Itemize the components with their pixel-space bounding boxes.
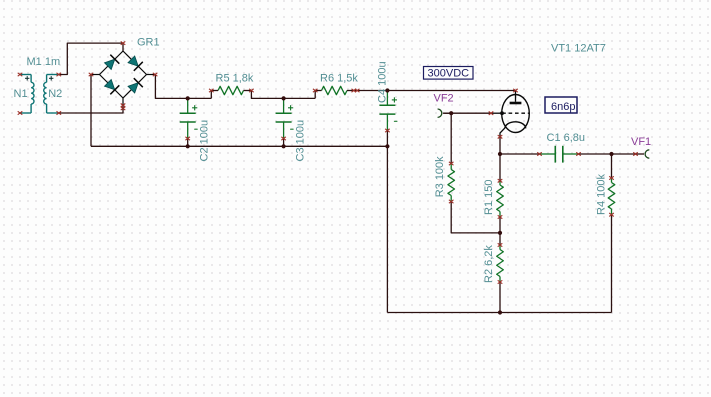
wire bridge left vertex down — [90, 75, 92, 147]
pin R5 left — [209, 89, 214, 92]
wire R1 bottom lead — [499, 217, 501, 233]
pin GR1 right — [153, 73, 158, 76]
capacitor C3 — [283, 98, 285, 113]
svg-text:VT1 12AT7: VT1 12AT7 — [551, 42, 606, 54]
pin R4 top — [609, 176, 614, 179]
pin VF1 — [633, 152, 638, 155]
junction C1 R4 VF1 — [609, 152, 613, 156]
svg-text:R1 150: R1 150 — [483, 180, 495, 215]
junction C3 top — [282, 96, 286, 100]
pin C2 bottom — [185, 137, 190, 140]
svg-text:C4 100u: C4 100u — [377, 61, 389, 103]
svg-text:N2: N2 — [48, 88, 62, 100]
wire R2 bottom lead — [499, 282, 501, 313]
diode GR1 top-left — [105, 59, 115, 69]
wire R3 top lead — [450, 113, 452, 163]
pin VT1 cathode — [498, 135, 503, 138]
wire R1 top lead — [499, 154, 501, 181]
pin R4 bottom — [609, 213, 614, 216]
junction R3 R1 R2 — [498, 231, 502, 235]
resistor R6 — [322, 86, 348, 94]
svg-text:GR1: GR1 — [137, 37, 160, 49]
pin R5 right — [249, 89, 254, 92]
capacitor C1 — [540, 153, 556, 155]
polarity mark N2 — [49, 77, 53, 79]
svg-text:N1: N1 — [14, 88, 28, 100]
junction R2 bottom bus — [498, 310, 502, 314]
wire bridge right vertex to bus — [155, 75, 211, 99]
resistor R4 — [608, 183, 615, 210]
pin R3 bottom — [449, 200, 454, 203]
wire R2 top lead — [499, 233, 501, 245]
wire cathode down — [499, 137, 501, 154]
wire DC minus rail — [91, 145, 387, 147]
label 300VDC box — [424, 67, 474, 80]
capacitor C4 — [386, 91, 388, 106]
svg-text:R2 6,2k: R2 6,2k — [483, 245, 495, 283]
svg-text:VF2: VF2 — [434, 93, 454, 105]
junction C4 rail — [385, 144, 389, 148]
pin R1 top — [498, 179, 503, 182]
wire N2 bottom to bridge bottom — [59, 106, 123, 114]
svg-text:R6 1,5k: R6 1,5k — [320, 73, 358, 85]
diode GR1 top-right — [128, 56, 138, 66]
pin R6 right — [352, 89, 357, 92]
wire C3 to rail — [283, 139, 285, 147]
pin N2 bottom — [57, 111, 62, 114]
wire cathode row to C1 — [500, 153, 540, 155]
svg-text:C1 6,8u: C1 6,8u — [547, 132, 586, 144]
triode VT1 envelope and electrodes — [502, 95, 530, 133]
connector VF1 — [645, 150, 649, 158]
pin C1 right — [576, 152, 581, 155]
pin R6 left — [313, 89, 318, 92]
wire R3 bottom to R1 bottom — [451, 202, 500, 233]
wire N2 top to bridge top — [59, 43, 123, 74]
junction VF2 grid R3 — [449, 111, 453, 115]
connector VF2 — [438, 109, 442, 117]
junction cathode — [498, 152, 502, 156]
svg-text:300VDC: 300VDC — [428, 68, 470, 80]
pin R2 top — [498, 243, 503, 246]
svg-text:M1 1m: M1 1m — [27, 56, 61, 68]
pin C3 bottom — [281, 137, 286, 140]
pin C4 bottom — [385, 129, 390, 132]
wire R6 left stub — [314, 91, 316, 99]
diode GR1 bottom-left — [105, 80, 115, 90]
wire R4 top lead — [611, 154, 613, 178]
resistor R2 — [497, 250, 504, 277]
pin VT1 grid — [489, 112, 494, 115]
junction C2 bottom — [186, 144, 190, 148]
svg-text:VF1: VF1 — [631, 136, 651, 148]
capacitor C2 — [187, 98, 189, 113]
resistor R5 — [218, 86, 244, 94]
junction C4 top — [385, 88, 389, 92]
svg-text:R4 100k: R4 100k — [596, 174, 608, 215]
pin R1 bottom — [498, 215, 503, 218]
wire B+ rail R6 to tube anode — [355, 90, 516, 92]
pin N1 top — [18, 73, 23, 76]
svg-text:C3 100u: C3 100u — [295, 120, 307, 162]
pin R2 bottom — [498, 280, 503, 283]
wire bridge top pin — [122, 43, 124, 51]
pin C1 left — [537, 152, 542, 155]
wire bottom bus — [387, 312, 611, 314]
pin VT1 anode — [513, 89, 518, 92]
resistor R1 — [497, 185, 504, 212]
wire C1 to VF1 — [579, 153, 636, 155]
wire R4 bottom lead — [611, 215, 613, 313]
wire VF2 to grid — [444, 112, 491, 114]
svg-text:C2 100u: C2 100u — [199, 120, 211, 162]
svg-text:R3 100k: R3 100k — [434, 156, 446, 197]
polarity mark N1 — [25, 77, 29, 79]
wire R5 left stub — [210, 91, 212, 99]
svg-text:6n6p: 6n6p — [551, 101, 575, 113]
svg-text:R5 1,8k: R5 1,8k — [216, 73, 254, 85]
diode GR1 bottom-right — [128, 83, 138, 93]
wire C2 to rail — [187, 139, 189, 147]
pin GR1 left — [89, 73, 94, 76]
pin N2 top — [57, 73, 62, 76]
pin N1 bottom — [18, 111, 23, 114]
transformer M1 secondary winding N2 — [47, 74, 59, 76]
pin GR1 top — [121, 41, 126, 44]
pin R3 top — [449, 162, 454, 165]
wire C4 column down — [386, 131, 388, 313]
bridge rectifier GR1 diamond — [100, 51, 147, 98]
resistor R3 — [448, 170, 455, 196]
transformer M1 primary winding N1 — [20, 74, 31, 76]
label 6n6p box — [545, 97, 577, 113]
pin GR1 bottom — [121, 104, 126, 107]
junction C3 bottom — [282, 144, 286, 148]
junction C2 top — [186, 96, 190, 100]
wire R5 right stub to C3 — [251, 91, 315, 99]
